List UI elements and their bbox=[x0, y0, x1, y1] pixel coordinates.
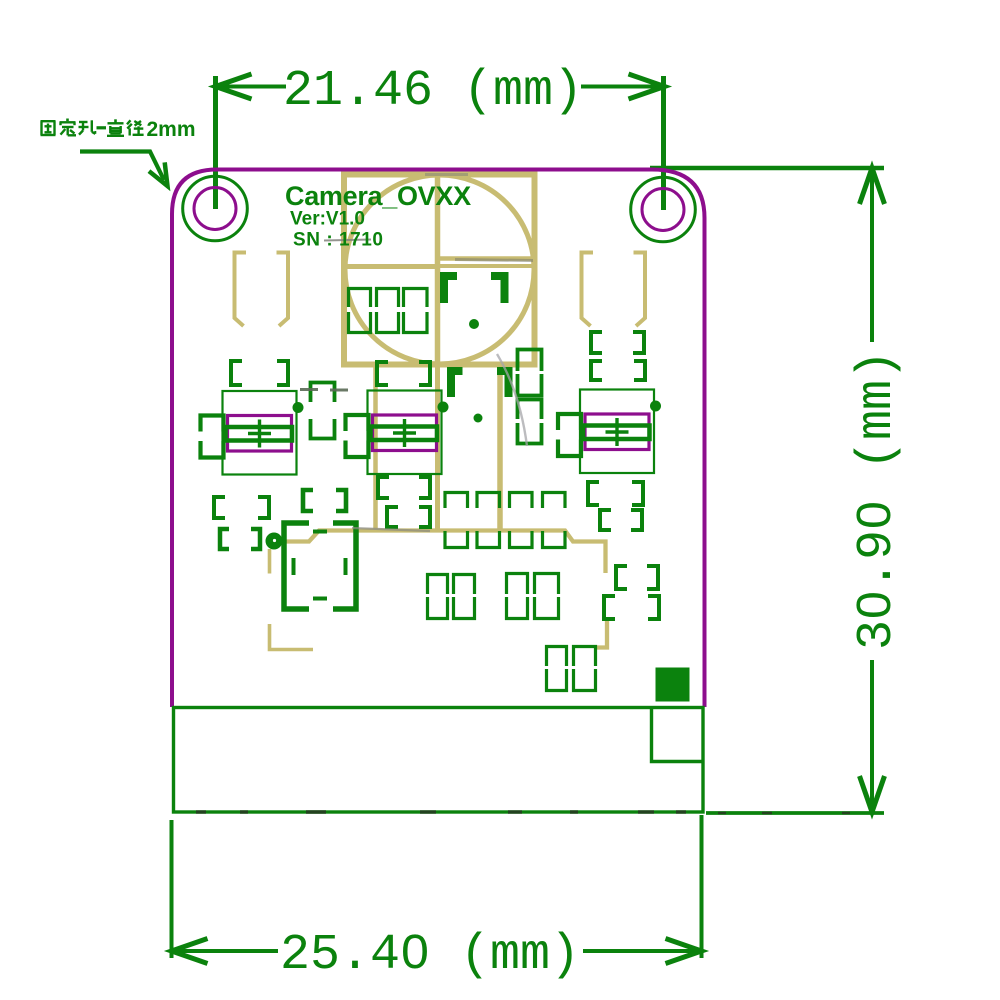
mid pad column 2 bbox=[477, 493, 500, 548]
mid pad column 3 bbox=[510, 493, 533, 548]
component pads above C2 bbox=[377, 362, 430, 385]
crystal component C3 bbox=[558, 390, 661, 474]
subtitle Ver:V1.0 bbox=[290, 209, 365, 230]
corner mark upper-left of pair 1 bbox=[444, 276, 457, 303]
sensor circle (khaki) bbox=[345, 175, 534, 364]
connector notch bbox=[652, 708, 703, 762]
component pads below C2 row2 bbox=[387, 507, 430, 527]
pad stack right of C2 lower bbox=[518, 400, 542, 444]
gray smudge over trace bbox=[352, 528, 430, 531]
title Camera_OVXX bbox=[285, 181, 471, 211]
khaki bracket pair left bbox=[235, 253, 289, 327]
bottom dimension text 25.40 (mm) bbox=[280, 927, 580, 984]
top dimension line with arrows bbox=[216, 74, 665, 99]
mounting hole right inner bbox=[642, 189, 684, 231]
crystal component C2 bbox=[346, 391, 449, 475]
mid pad column 4 bbox=[543, 493, 566, 548]
solid copper pad square bbox=[656, 668, 690, 702]
svg-text:Ver:V1.0: Ver:V1.0 bbox=[290, 209, 365, 230]
svg-text:SN : 1710: SN : 1710 bbox=[293, 230, 384, 251]
component pads right cluster 1 bbox=[588, 482, 643, 505]
mid pad column 1 bbox=[445, 493, 468, 548]
khaki trace vertical C bbox=[497, 365, 503, 532]
pad row in circle (n-shapes) bbox=[349, 289, 428, 308]
leader line to mounting hole bbox=[80, 152, 175, 191]
gray smudge curve near C3 left bbox=[497, 354, 527, 446]
subtitle SN : 1710 bbox=[293, 230, 384, 251]
sensor outline square (khaki) bbox=[344, 175, 535, 365]
bottom dim extension line left bbox=[170, 820, 174, 958]
khaki trace right lower bbox=[596, 620, 607, 648]
dimension extension line left (top dim) bbox=[213, 76, 218, 209]
component pads right cluster 2 bbox=[600, 510, 642, 530]
corner mark upper-right of pair 1 bbox=[491, 276, 505, 303]
khaki trace left stub bbox=[268, 549, 272, 574]
sensor cross horizontal right lower (khaki) bbox=[438, 264, 535, 268]
svg-text:2mm: 2mm bbox=[147, 118, 196, 141]
component pads below C2 row1 bbox=[378, 477, 430, 498]
board outline (PCB edge) bbox=[172, 170, 705, 708]
connector bottom edge dark marks bbox=[196, 810, 686, 813]
fiducial dot 1 bbox=[469, 319, 479, 329]
connector outline bbox=[174, 708, 704, 813]
pad cluster A sq2 bbox=[454, 575, 475, 619]
sensor cross vertical (khaki) bbox=[435, 175, 441, 365]
pad cluster B sq1 bbox=[507, 574, 528, 619]
khaki trace vertical B bbox=[435, 365, 440, 532]
zero dot cover right dim 2 bbox=[866, 510, 878, 519]
top dimension text 21.46 (mm) bbox=[283, 63, 583, 120]
right dimension text 30.90 (mm) bbox=[849, 350, 906, 650]
mounting hole right outer bbox=[631, 177, 696, 242]
component pads right cluster 3 bbox=[616, 566, 658, 589]
pad stack right of C2 upper bbox=[518, 350, 542, 396]
component pads right cluster 4 bbox=[604, 596, 659, 619]
svg-text:25.40 (mm): 25.40 (mm) bbox=[280, 927, 580, 984]
gray smudge on sensor top edge bbox=[425, 173, 468, 176]
dark marks on C1 top edge bbox=[300, 388, 348, 392]
khaki bracket pair right bbox=[582, 253, 646, 327]
camera socket outline (thick square) bbox=[284, 523, 356, 609]
pad cluster B sq2 bbox=[535, 574, 559, 619]
khaki trace left corner bbox=[270, 624, 314, 650]
khaki trace vertical A bbox=[373, 365, 378, 532]
zero dot cover bottom dim bbox=[411, 945, 420, 957]
corner mark lower-right of pair 2 bbox=[497, 371, 509, 397]
fiducial dot 2 bbox=[474, 414, 483, 423]
right dim extension line top bbox=[650, 166, 884, 171]
corner mark lower-left of pair 2 bbox=[451, 371, 463, 397]
strikethrough artifact on 1710 bbox=[324, 240, 371, 241]
pad cluster A sq1 bbox=[428, 575, 448, 619]
component pads left of square pair bbox=[303, 490, 346, 511]
dimension extension line right (top dim) bbox=[661, 76, 666, 210]
component pads above C3 row2 bbox=[591, 361, 645, 380]
sensor cross horizontal right upper (khaki) bbox=[438, 256, 535, 261]
mounting hole left outer bbox=[183, 176, 248, 241]
pad cluster C sq1 bbox=[547, 647, 567, 691]
component pads left of shield row2 bbox=[220, 529, 260, 549]
zero dot cover right dim 1 bbox=[866, 600, 878, 609]
right dim extension line bottom bbox=[706, 811, 884, 815]
label text 固定孔-直径2mm bbox=[41, 118, 196, 141]
component pads above C3 row1 bbox=[591, 332, 644, 353]
mounting hole left inner bbox=[194, 188, 236, 230]
component pads above C1 bbox=[231, 361, 288, 385]
extension line dark marks bbox=[718, 812, 850, 815]
pad pair between C1 and C2 bbox=[311, 383, 335, 439]
component pads left of shield row1 bbox=[214, 497, 269, 518]
khaki trace horizontal main bbox=[283, 531, 606, 574]
bottom dim extension line right bbox=[700, 815, 704, 958]
pad row in circle (u-shapes) bbox=[349, 312, 428, 333]
svg-text:Camera_OVXX: Camera_OVXX bbox=[285, 181, 471, 211]
pad cluster C sq2 bbox=[574, 647, 596, 691]
crystal component C1 bbox=[201, 391, 304, 475]
via pad with hole bbox=[266, 533, 283, 550]
sensor cross horizontal left (khaki) bbox=[344, 264, 438, 269]
right dimension line with arrows bbox=[860, 168, 885, 812]
svg-text:21.46 (mm): 21.46 (mm) bbox=[283, 63, 583, 120]
gray smudge on khaki cross right bbox=[455, 260, 533, 261]
bottom dimension line with arrows bbox=[172, 939, 702, 964]
